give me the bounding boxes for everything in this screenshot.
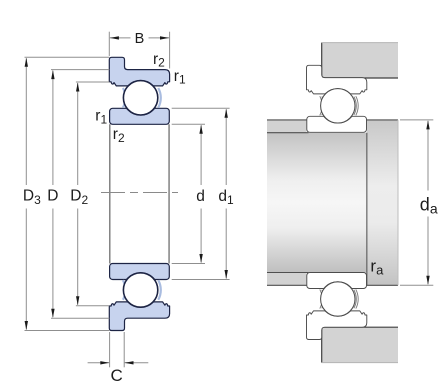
svg-text:B: B [135,31,145,47]
svg-text:D: D [47,188,58,205]
svg-text:C: C [111,366,123,385]
svg-text:d: d [196,188,205,205]
